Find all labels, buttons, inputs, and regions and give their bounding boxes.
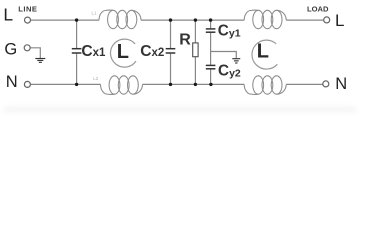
svg-text:LOAD: LOAD [307, 5, 329, 14]
svg-text:N: N [335, 75, 347, 93]
svg-text:L: L [3, 4, 13, 24]
svg-text:L: L [257, 41, 269, 63]
svg-text:G: G [4, 41, 17, 59]
svg-text:LINE: LINE [18, 5, 37, 14]
svg-text:L2: L2 [93, 76, 99, 81]
svg-text:R: R [179, 31, 191, 48]
svg-text:L1: L1 [92, 11, 98, 16]
svg-text:L: L [335, 11, 344, 30]
svg-text:N: N [6, 73, 18, 91]
svg-text:L: L [117, 41, 129, 63]
